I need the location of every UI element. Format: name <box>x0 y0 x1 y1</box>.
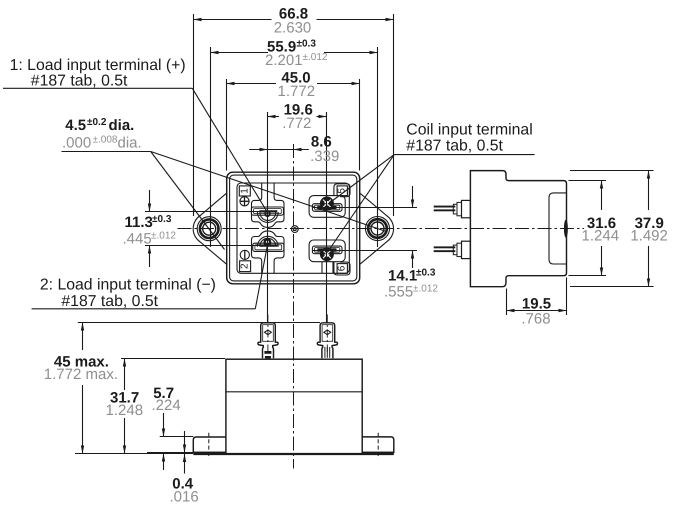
svg-text:4.5: 4.5 <box>65 117 86 134</box>
right front tab <box>317 315 337 359</box>
svg-text:6: 6 <box>337 265 348 271</box>
svg-text:.224: .224 <box>152 397 181 414</box>
svg-text:#187 tab, 0.5t: #187 tab, 0.5t <box>61 293 158 310</box>
svg-text:dia.: dia. <box>109 117 135 134</box>
svg-text:.445: .445 <box>123 231 152 248</box>
svg-text:#187 tab, 0.5t: #187 tab, 0.5t <box>31 73 128 90</box>
upper coil pin <box>434 200 471 217</box>
svg-text:±.008: ±.008 <box>93 135 118 146</box>
left front tab <box>258 315 278 359</box>
svg-text:1: 1 <box>239 188 250 194</box>
square label 2 <box>240 261 251 272</box>
dim 0.4 / .016 <box>147 431 199 506</box>
hidden hole right flange <box>377 433 379 459</box>
dim 55.9 / 2.201 <box>211 38 378 247</box>
right mounting ear outline <box>360 193 394 265</box>
label: coil input terminal <box>328 122 535 249</box>
dim 31.7 / 1.248 <box>106 359 226 454</box>
dim 5.7 / .224 <box>152 385 194 470</box>
svg-text:±0.3: ±0.3 <box>152 214 172 225</box>
dim 14.1 / .555 (right) <box>313 186 438 300</box>
svg-text:Coil input terminal: Coil input terminal <box>406 122 532 139</box>
svg-text:1.492: 1.492 <box>630 228 668 245</box>
svg-text:14.1: 14.1 <box>388 268 417 285</box>
svg-text:.339: .339 <box>310 148 339 165</box>
terminal 2 (load -, bottom-left) <box>240 231 284 273</box>
svg-text:±0.2: ±0.2 <box>87 117 107 128</box>
center pilot mark <box>291 226 298 233</box>
hidden hole left flange <box>208 433 210 459</box>
front seam <box>226 391 362 393</box>
top view body inner outline <box>230 175 357 281</box>
side view seam lens <box>564 220 568 238</box>
horizontal center line <box>178 228 585 230</box>
svg-text:.768: .768 <box>521 311 550 328</box>
svg-text:±0.3: ±0.3 <box>297 38 317 49</box>
svg-text:2: 2 <box>240 263 251 269</box>
left ear hole circles <box>197 217 221 241</box>
terminal 1 (load +, top-left) <box>239 183 284 227</box>
right ear hole circles <box>366 217 390 241</box>
top view body outer outline <box>227 172 360 284</box>
base bottom edge <box>193 453 393 455</box>
vertical center line <box>293 144 295 469</box>
label: 4.5 dia <box>62 117 387 250</box>
svg-text:1.248: 1.248 <box>106 402 144 419</box>
left mounting ear outline <box>193 193 227 265</box>
label: load input terminal + <box>3 57 267 211</box>
svg-text:±.012: ±.012 <box>151 231 176 242</box>
right flange <box>362 437 394 453</box>
side view cover seam <box>549 193 566 264</box>
dim 45.0 / 1.772 <box>227 70 360 171</box>
svg-text:.000: .000 <box>62 135 91 152</box>
top view recessed panel <box>237 183 349 273</box>
dim 66.8 / 2.630 <box>194 6 394 216</box>
terminal 6 (coil, bottom-right) <box>309 240 350 275</box>
bottom extension line for 45max/31.7 <box>75 453 193 455</box>
svg-text:.772: .772 <box>282 115 311 132</box>
svg-text:1.772 max.: 1.772 max. <box>44 366 118 383</box>
plus symbol <box>240 197 249 206</box>
svg-text:.555: .555 <box>384 283 413 300</box>
dim 37.9 / 1.492 <box>570 171 668 287</box>
left flange <box>193 437 226 453</box>
square label 1 <box>239 186 250 196</box>
svg-text:2.201: 2.201 <box>265 52 303 69</box>
svg-text:2.630: 2.630 <box>274 19 312 36</box>
side view outline <box>470 171 566 287</box>
dim 19.5 / .768 <box>507 278 567 328</box>
minus symbol <box>240 250 249 259</box>
svg-text:±0.3: ±0.3 <box>416 268 436 279</box>
label: load input terminal - <box>32 246 268 310</box>
svg-text:±.012: ±.012 <box>413 283 438 294</box>
dim 31.6 / 1.244 <box>569 181 620 276</box>
svg-text:#187 tab, 0.5t: #187 tab, 0.5t <box>406 138 503 155</box>
svg-text:1.772: 1.772 <box>278 83 316 100</box>
svg-text:2: Load input terminal (−): 2: Load input terminal (−) <box>40 277 216 294</box>
dim 45 max / 1.772 max <box>44 323 320 454</box>
svg-text:11.3: 11.3 <box>125 214 153 231</box>
svg-text:.016: .016 <box>170 489 199 506</box>
dim 19.6 / .772 <box>268 101 327 322</box>
terminal 5 (coil, top-right) <box>309 184 350 218</box>
svg-text:1.244: 1.244 <box>582 228 620 245</box>
svg-text:dia.: dia. <box>118 135 142 152</box>
dim 8.6 / .339 <box>249 134 339 165</box>
svg-text:±.012: ±.012 <box>303 52 328 63</box>
lower coil pin <box>434 241 471 258</box>
svg-text:1: Load input terminal (+): 1: Load input terminal (+) <box>10 57 186 74</box>
front body <box>226 359 362 454</box>
dim 11.3 / .445 (left) <box>123 190 270 267</box>
